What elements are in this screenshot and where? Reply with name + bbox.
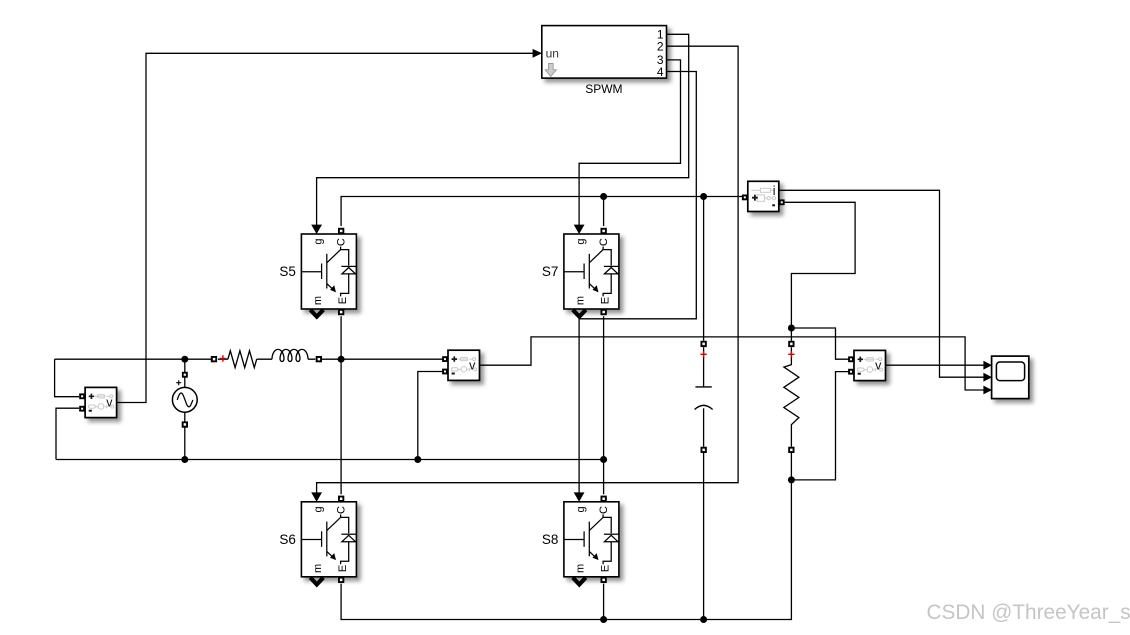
wire mid rail (AC return) [56,459,604,461]
node AC top [181,356,188,363]
inductor L (series) coils [272,349,308,361]
wire SPWM pin2 to S6 gate [317,46,738,493]
svg-text:C: C [335,238,347,246]
wire SPWM pin3 to S7 gate [579,60,680,225]
port square RL branch right [316,356,322,362]
wire AC main left segment [55,358,212,360]
node A (left leg midpoint) [338,356,345,363]
resistor R (series) zigzag [228,351,257,368]
red + polarity marker RL branch [220,355,226,361]
voltmeter v3 (Voltage Measurement) [848,350,885,380]
arrowhead into SPWM input [533,49,542,58]
node S8.E on bottom rail [600,616,607,623]
svg-text:E: E [599,565,611,572]
node load top [788,325,795,332]
subsystem SPWM block [542,26,667,79]
svg-text:m: m [575,296,587,305]
load resistor R branch [784,341,799,453]
svg-text:v: v [106,396,113,410]
svg-text:4: 4 [657,65,664,79]
voltmeter v1 (Voltage Measurement) [79,387,116,417]
svg-text:E: E [337,565,349,572]
wire S7.C stub to top rail [603,197,605,227]
svg-text:2: 2 [657,40,664,54]
wire SPWM pin1 to S5 gate [317,34,689,225]
ammeter i (Current Measurement) [742,181,785,211]
scope input arrowheads [983,361,992,370]
wire bridge right leg S7.E to S8.C [603,316,605,494]
svg-text:C: C [335,506,347,514]
wire AC source stubs [184,359,186,459]
svg-text:i: i [773,184,776,198]
wire load bottom to v3 - [791,372,851,480]
wire bridge left leg S5.E to S6.C [340,316,342,494]
capacitor C branch [695,341,713,453]
scope block [992,356,1029,399]
svg-text:S5: S5 [279,264,296,279]
wire capacitor bottom stub to bottom rail [703,453,705,620]
transistor S5 (IGBT/Diode block) [301,225,356,317]
svg-text:CSDN @ThreeYear_s: CSDN @ThreeYear_s [927,601,1130,624]
svg-text:m: m [312,296,324,305]
port square RL branch left [211,356,217,362]
wire load node to v3 + [791,328,851,359]
wire v3 output to scope input 1 [886,364,985,366]
svg-text:v: v [875,359,882,373]
wire v2 - down to mid rail [418,372,443,460]
node B (right leg on mid rail) [600,456,607,463]
wire current meter - to load node [784,202,855,328]
wire v1 output to SPWM input un [117,53,534,402]
svg-text:g: g [312,239,324,245]
svg-text:m: m [575,564,587,573]
voltmeter v2 (Voltage Measurement) [442,350,479,380]
svg-text:un: un [546,46,559,60]
svg-text:C: C [598,238,610,246]
wire SPWM pin4 to S8 gate [579,72,696,493]
svg-text:C: C [598,506,610,514]
svg-text:S8: S8 [542,532,559,547]
node AC bottom on mid rail [181,456,188,463]
wire RL inner segments [218,358,443,360]
svg-text:g: g [575,506,587,512]
transistor S8 (IGBT/Diode block) [564,492,619,584]
wire v2 output to scope input 3 [480,337,985,390]
svg-text:SPWM: SPWM [585,82,622,96]
transistor S7 (IGBT/Diode block) [564,225,619,317]
svg-text:g: g [575,239,587,245]
svg-text:E: E [337,297,349,304]
node S7.C on top rail [600,193,607,200]
svg-text:v: v [469,359,476,373]
svg-text:S6: S6 [279,532,296,547]
node load bottom [788,476,795,483]
svg-text:g: g [312,506,324,512]
wire bottom rail S6.E to load bottom [341,480,791,620]
wire stub to v1 + [55,359,80,397]
node v2- on mid rail [414,456,421,463]
svg-text:S7: S7 [542,264,559,279]
svg-text:E: E [599,297,611,304]
wire S8.E stub to bottom rail [603,584,605,620]
AC voltage source Vs [172,372,197,428]
node capacitor on bottom rail [700,616,707,623]
wire current meter signal to scope input 2 [779,190,984,377]
wire DC top rail S5.C S7.C to current meter + [341,197,743,227]
transistor S6 (IGBT/Diode block) [301,492,356,584]
svg-text:m: m [312,564,324,573]
wire load node down to resistor top port [790,328,792,341]
wire capacitor top stub to top rail [703,197,705,341]
node capacitor on top rail [700,193,707,200]
wire v1 - down to mid rail [56,408,79,459]
